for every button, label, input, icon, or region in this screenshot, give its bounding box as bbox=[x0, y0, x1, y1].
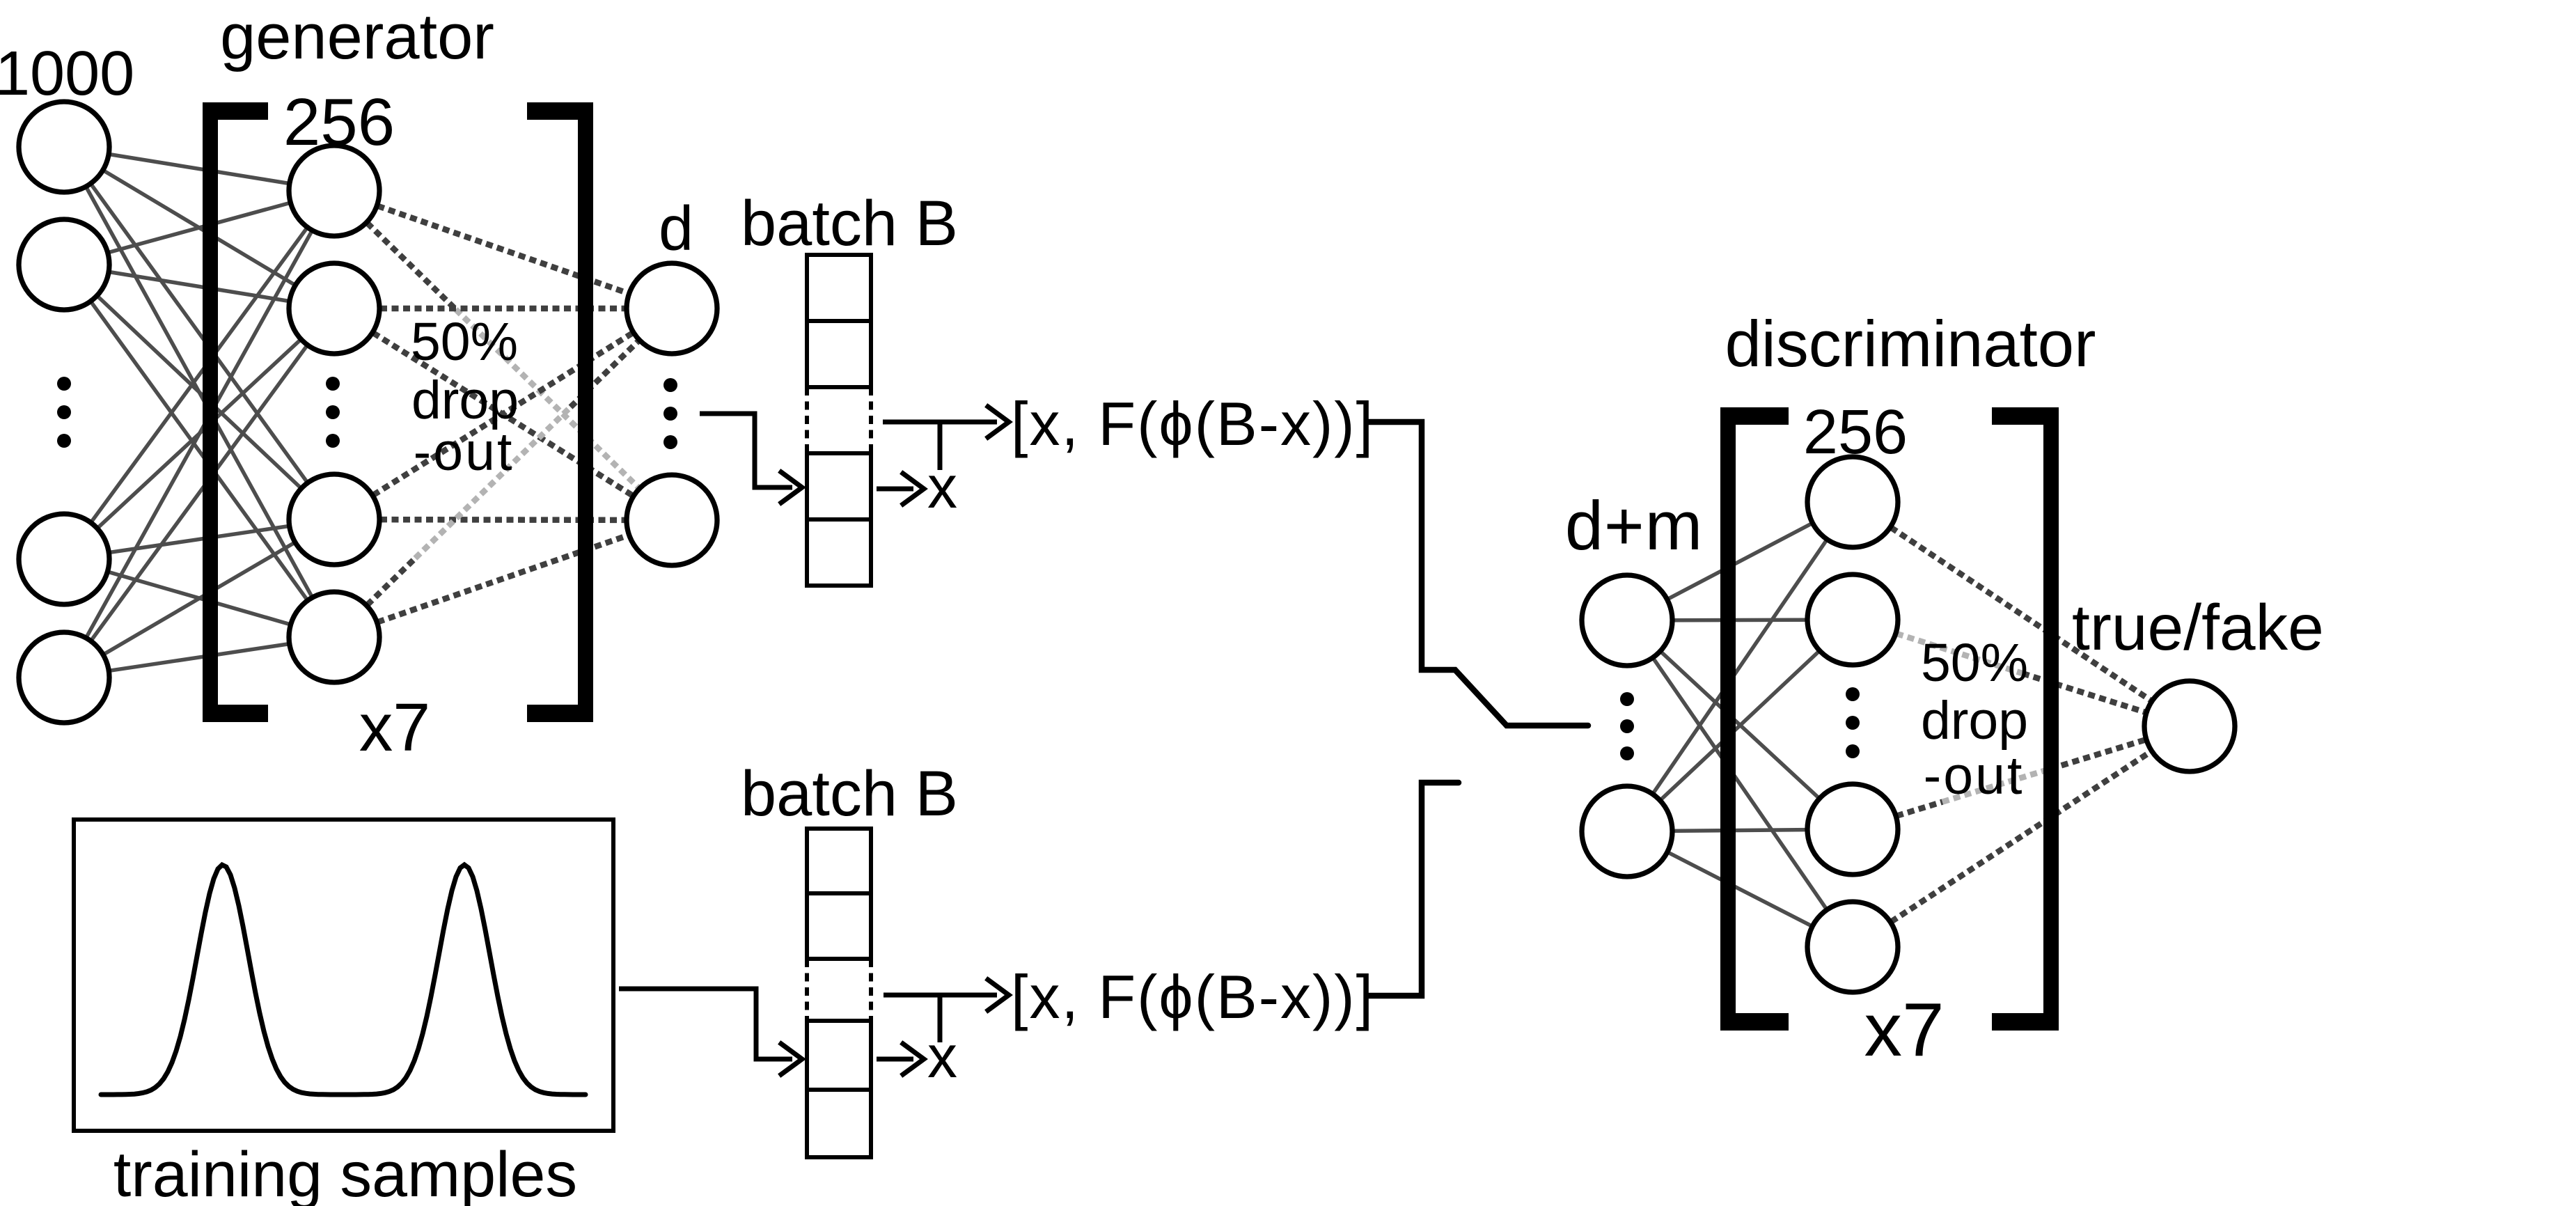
svg-text:drop: drop bbox=[1921, 691, 2028, 751]
svg-text:x: x bbox=[927, 1024, 957, 1090]
svg-text:[x, F(ϕ(B-x))]: [x, F(ϕ(B-x))] bbox=[1011, 389, 1374, 458]
svg-text:[x, F(ϕ(B-x))]: [x, F(ϕ(B-x))] bbox=[1011, 962, 1374, 1031]
svg-text:-out: -out bbox=[414, 422, 515, 482]
svg-text:x7: x7 bbox=[359, 689, 430, 765]
svg-text:d: d bbox=[659, 194, 693, 264]
svg-text:d+m: d+m bbox=[1565, 487, 1703, 564]
svg-text:discriminator: discriminator bbox=[1725, 307, 2096, 380]
svg-text:50%: 50% bbox=[1921, 633, 2028, 693]
svg-text:generator: generator bbox=[220, 1, 494, 72]
svg-text:256: 256 bbox=[1803, 398, 1908, 467]
svg-text:50%: 50% bbox=[411, 312, 518, 372]
svg-text:true/fake: true/fake bbox=[2072, 591, 2324, 664]
svg-text:batch B: batch B bbox=[741, 188, 958, 259]
svg-text:x7: x7 bbox=[1864, 987, 1944, 1072]
svg-text:1000: 1000 bbox=[0, 39, 134, 109]
svg-text:-out: -out bbox=[1924, 746, 2025, 806]
svg-text:x: x bbox=[927, 454, 957, 521]
svg-text:training samples: training samples bbox=[113, 1139, 577, 1206]
svg-text:batch B: batch B bbox=[741, 758, 958, 829]
svg-text:256: 256 bbox=[283, 85, 395, 159]
